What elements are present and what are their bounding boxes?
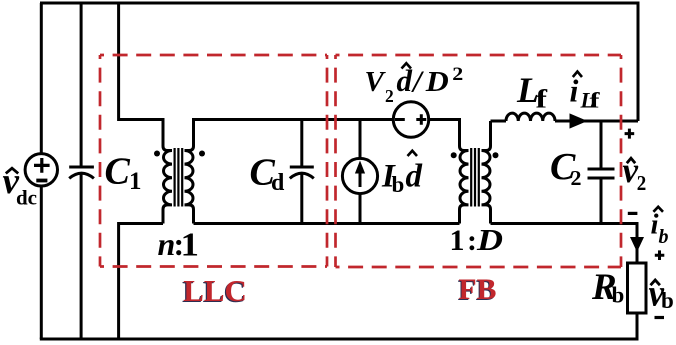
capacitor C2 plate top [588, 168, 615, 171]
label n:1 [158, 226, 200, 264]
transformer T2 primary winding [460, 144, 469, 224]
svg-text:LLC: LLC [183, 273, 247, 308]
current source Ib arrow shaft [359, 171, 362, 187]
label Rb [591, 267, 624, 308]
arrow ib head [630, 237, 644, 252]
svg-text:1: 1 [181, 227, 200, 264]
wire FB bottom rail to load [491, 224, 638, 264]
label ib hat [653, 207, 663, 212]
wire Lf to output node [555, 120, 638, 123]
wire Cd branch top [300, 118, 303, 166]
label Cd [250, 152, 286, 197]
FB dashed box [336, 55, 622, 267]
wire Ib branch top [359, 118, 362, 158]
svg-text:d: d [397, 63, 413, 98]
resistor Rb box [628, 263, 647, 313]
wire top rail and right vertical [40, 3, 638, 121]
label vb minus [655, 316, 665, 319]
wire Rb to bottom rail [636, 313, 639, 339]
wire bottom rail [40, 338, 639, 341]
wire input cap branch top [80, 3, 83, 166]
wire input cap branch bottom [80, 173, 83, 339]
transformer T1 primary winding [163, 118, 172, 224]
label Lf [516, 70, 547, 114]
voltage source V2 circle [393, 102, 428, 137]
wire LLC return branch [119, 224, 163, 340]
svg-text::: : [467, 224, 477, 257]
svg-text:1: 1 [129, 168, 142, 195]
svg-text:2: 2 [385, 86, 394, 106]
transformer T1 secondary winding [185, 118, 194, 224]
wire C2 branch top [600, 121, 603, 168]
inductor Lf [506, 113, 555, 121]
label V2 [365, 66, 394, 106]
wire C2 branch bottom [600, 180, 603, 224]
capacitor Cd flat plate [290, 166, 314, 169]
V2 plus sign [416, 114, 426, 125]
wire secondary top rail [194, 118, 394, 121]
capacitor C2 plate bottom [588, 177, 615, 180]
svg-text:D: D [425, 66, 449, 98]
svg-text:b: b [392, 172, 405, 197]
transformer T2 secondary winding [482, 121, 491, 224]
label d hat of Ibd [408, 151, 418, 156]
svg-text:2: 2 [452, 65, 463, 85]
svg-text:FB: FB [459, 273, 497, 306]
svg-text:2: 2 [637, 171, 647, 195]
label iLf hat [573, 72, 582, 78]
transformer T1 core lines [175, 148, 183, 207]
label vb plus [655, 250, 665, 260]
svg-text:d: d [406, 159, 423, 195]
wire Ib branch bottom [359, 194, 362, 224]
svg-text:V: V [365, 66, 387, 98]
label iLf [570, 73, 601, 113]
label C2 [550, 146, 582, 190]
svg-text:b: b [661, 288, 674, 313]
wire Cd branch bottom [300, 173, 303, 223]
label 1:D [450, 222, 504, 257]
arrow iLf head [570, 113, 588, 128]
label ib [651, 209, 669, 248]
transformer T2 dot right [493, 152, 499, 158]
wire LLC input branch [119, 3, 163, 120]
svg-text:f: f [536, 85, 548, 114]
label v2 plus [625, 129, 635, 139]
label FB [458, 273, 497, 307]
svg-text:/: / [411, 64, 424, 99]
svg-text:d: d [271, 170, 285, 196]
svg-text:b: b [612, 283, 625, 308]
label vb [649, 273, 674, 315]
wire secondary bottom rail [194, 222, 460, 225]
transformer T2 core lines [471, 148, 479, 207]
vdc minus sign [36, 179, 47, 183]
wire vdc branch bottom [40, 186, 43, 339]
transformer T2 dot left [451, 152, 457, 158]
wire V2 to transformer T2 [429, 120, 460, 147]
transformer T1 dot left [154, 151, 160, 157]
current source Ib circle [342, 158, 377, 193]
label C1 [105, 151, 142, 196]
svg-text:C: C [105, 151, 131, 193]
current source Ib arrowhead [355, 161, 365, 174]
label v2 [623, 150, 647, 195]
vdc plus sign [34, 158, 50, 173]
label vdc hat [6, 168, 18, 173]
capacitor Cd curved plate [290, 173, 314, 178]
voltage source vdc circle [25, 154, 57, 186]
svg-text:i: i [570, 73, 579, 109]
capacitor Cin curved plate [69, 173, 94, 178]
capacitor Cin flat plate [69, 166, 94, 169]
LLC dashed box [100, 55, 327, 267]
wire T2 secondary to Lf [491, 120, 507, 123]
svg-text:2: 2 [571, 166, 582, 190]
wire vdc branch top [40, 3, 43, 154]
svg-text:dc: dc [16, 186, 37, 210]
label vb hat [651, 280, 660, 285]
label v2 hat [627, 158, 635, 163]
label d hat of V2d [402, 63, 412, 68]
label LLC [182, 273, 247, 309]
V2 minus sign [395, 118, 405, 121]
label Ib [381, 159, 404, 198]
svg-text:f: f [590, 88, 601, 113]
svg-text:i: i [651, 209, 659, 241]
label v2 minus [628, 212, 638, 215]
label vdc [3, 161, 38, 210]
svg-text:1: 1 [450, 224, 465, 257]
svg-text:D: D [476, 222, 503, 257]
svg-text:b: b [659, 226, 669, 248]
transformer T1 dot right [199, 151, 205, 157]
